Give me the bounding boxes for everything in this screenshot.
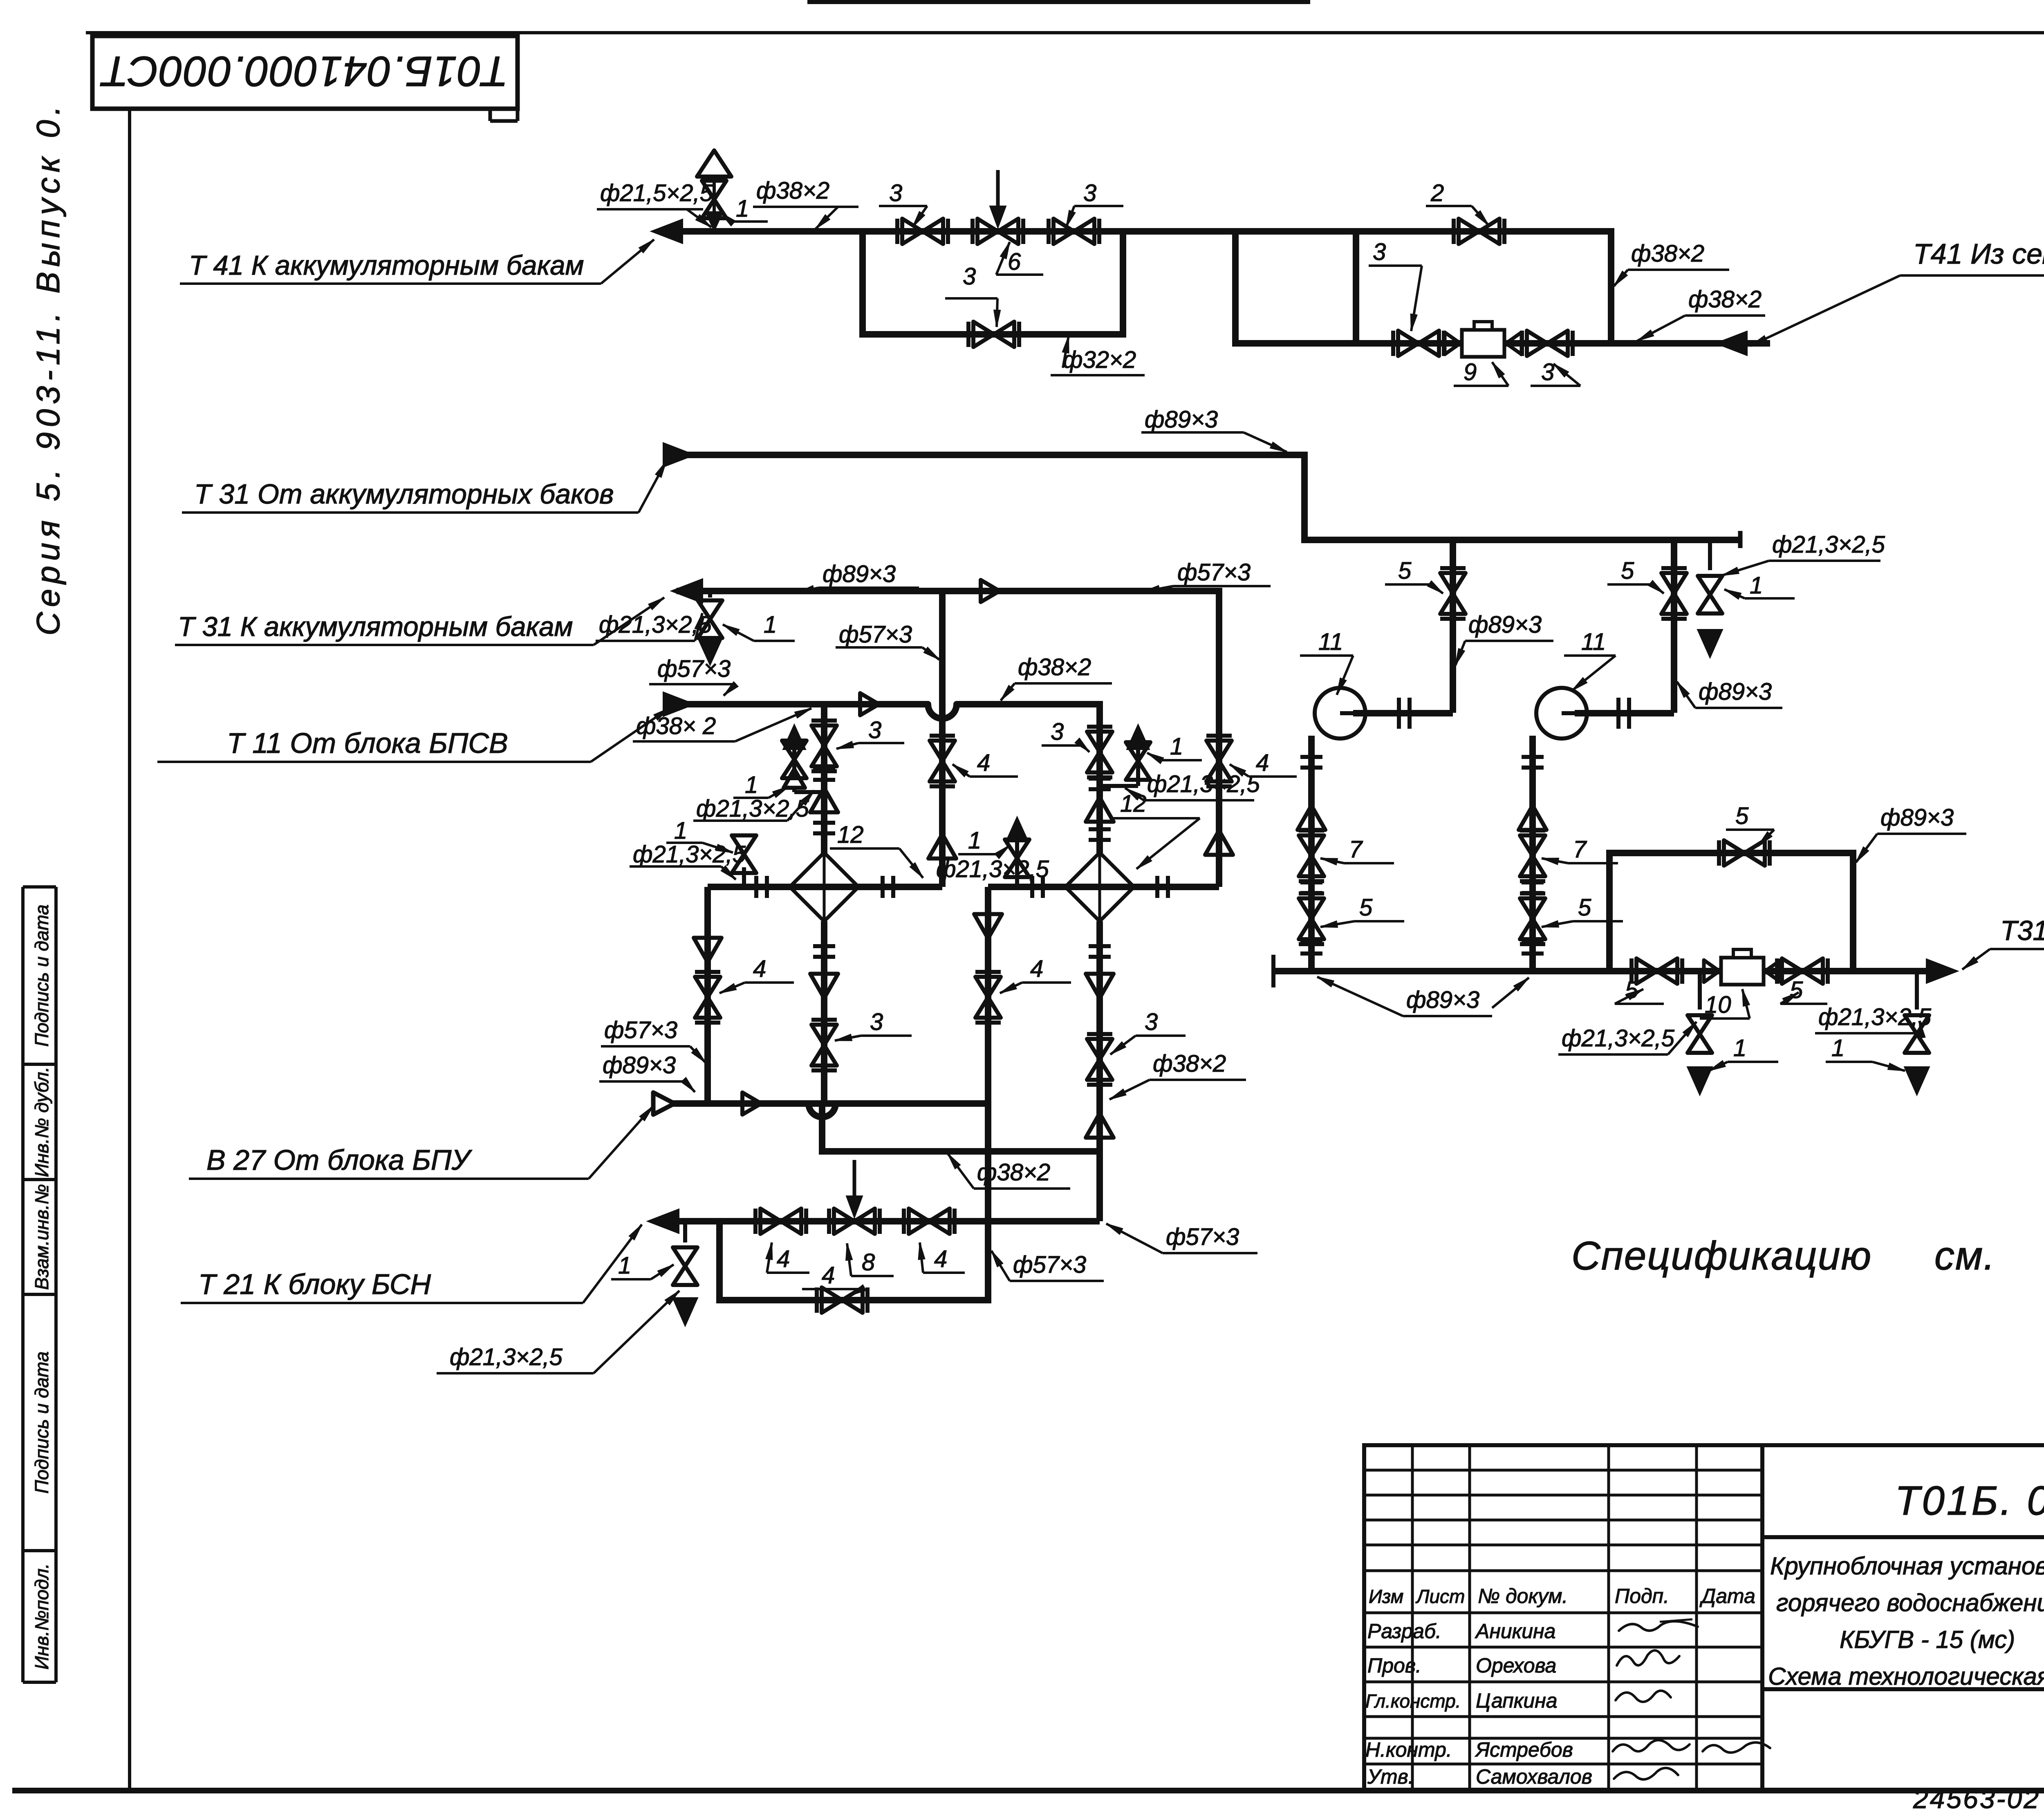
svg-text:Подпись и дата: Подпись и дата — [31, 1352, 52, 1494]
svg-text:ф21,3×2,5: ф21,3×2,5 — [1147, 771, 1260, 797]
label f38x2 incoming — [1637, 286, 1765, 341]
svg-text:Самохвалов: Самохвалов — [1476, 1765, 1592, 1788]
series label rotated — [30, 101, 66, 636]
label 5 header right — [1780, 977, 1827, 1004]
label 10 — [1700, 989, 1750, 1019]
svg-text:Т 21 К блоку БСН: Т 21 К блоку БСН — [198, 1268, 431, 1300]
wire HX-B inlet column — [1096, 719, 1103, 854]
wire riser A from T31K — [939, 591, 946, 887]
flange3 pump1 — [1300, 943, 1322, 954]
label 1 drain B — [958, 827, 1010, 859]
flange HX-B header R — [1157, 876, 1168, 898]
wire HX-A header — [708, 884, 942, 890]
check up HX-B bottom — [1086, 1113, 1114, 1138]
label 5 header left — [1615, 977, 1664, 1004]
check valve pump2 — [1519, 806, 1546, 830]
label 3 HX-B bottom — [1110, 1009, 1186, 1054]
label f38x2 riser — [1614, 240, 1729, 286]
scan edge artifact — [807, 0, 1310, 4]
svg-text:Изм: Изм — [1369, 1586, 1403, 1607]
svg-text:ф89×3: ф89×3 — [1880, 804, 1954, 831]
label 8 T21 — [846, 1243, 894, 1276]
label 3 HX-B inlet — [1042, 719, 1089, 752]
label 3 valve3L — [879, 180, 927, 227]
flow arrow T21 out — [647, 1209, 679, 1233]
label f89x3 B27 — [599, 1052, 695, 1092]
svg-text:ф57×3: ф57×3 — [657, 656, 731, 682]
wire pump2 discharge — [1575, 710, 1674, 716]
bottom annotations — [1913, 1784, 2044, 1811]
svg-text:ф21,3×2,5: ф21,3×2,5 — [1818, 1004, 1932, 1030]
label f89x3 discharge — [1317, 977, 1529, 1016]
label T21 — [181, 1224, 642, 1303]
valve 4 riser A — [930, 736, 955, 786]
svg-text:3: 3 — [868, 717, 881, 743]
svg-text:ф38×2: ф38×2 — [1018, 654, 1091, 681]
label f57x3 B27col — [601, 1017, 706, 1063]
label 3 valve3R — [1066, 180, 1123, 227]
svg-text:3: 3 — [1373, 239, 1386, 265]
label f57x3 riser A — [836, 621, 939, 660]
valve 7 pump1 — [1299, 831, 1324, 881]
label f89x3 recirc — [1856, 804, 1966, 862]
svg-text:горячего водоснабжения: горячего водоснабжения — [1776, 1589, 2044, 1616]
svg-text:ф89×3: ф89×3 — [823, 561, 896, 587]
label f21.3 drain B — [936, 856, 1049, 882]
valve 3 HX-A inlet — [811, 721, 837, 771]
valve 5 header left — [1632, 958, 1682, 984]
svg-text:Т 31 От аккумуляторных баков: Т 31 От аккумуляторных баков — [194, 479, 614, 510]
svg-text:ф57×3: ф57×3 — [1013, 1251, 1086, 1278]
label f38x2 T41 — [753, 177, 858, 229]
svg-text:ф89×3: ф89×3 — [603, 1052, 676, 1079]
label 1 header right drain — [1826, 1035, 1905, 1071]
heat exchanger 12 B — [1065, 853, 1134, 921]
check HX-A inlet — [810, 788, 838, 813]
svg-text:Серия 5. 903-11. Выпуск 0.: Серия 5. 903-11. Выпуск 0. — [30, 101, 66, 636]
wire T41 bypass — [859, 228, 1126, 334]
label f57x3 T21 header — [1106, 1224, 1257, 1253]
svg-text:11: 11 — [1581, 629, 1606, 655]
flange HX-A bottom — [813, 946, 835, 957]
label 3 HX-A inlet — [836, 717, 904, 749]
svg-text:3: 3 — [1541, 359, 1554, 385]
label T11 ot BPSV — [157, 708, 670, 762]
wire riser B from T31K corner — [1216, 588, 1222, 887]
valve 3 HX-B inlet — [1087, 727, 1112, 777]
label 4 T21 right — [918, 1242, 965, 1273]
flange HX-A header L — [756, 876, 767, 898]
doc stamp box rotated — [92, 36, 518, 121]
three-way valve 8 T21 — [829, 1160, 880, 1234]
svg-text:ф38×2: ф38×2 — [756, 177, 829, 204]
label T41 K akkum — [180, 240, 654, 284]
svg-text:3: 3 — [1145, 1009, 1158, 1035]
svg-text:ф38×2: ф38×2 — [977, 1159, 1050, 1186]
label 11 left — [1300, 629, 1353, 695]
label 12 A — [830, 822, 923, 878]
water meter 9 — [1445, 322, 1522, 357]
svg-text:5: 5 — [1621, 557, 1634, 584]
svg-text:1: 1 — [618, 1252, 631, 1279]
svg-text:Пров.: Пров. — [1367, 1654, 1421, 1677]
svg-text:10: 10 — [1705, 992, 1731, 1018]
valve 3 T41 right — [1049, 219, 1099, 244]
wire recirc loop — [1606, 850, 1856, 971]
flange2 pump2 — [1522, 882, 1544, 893]
svg-text:ф21,5×2,5: ф21,5×2,5 — [600, 180, 713, 206]
svg-text:3: 3 — [1083, 180, 1096, 206]
label 12 B — [1113, 790, 1200, 869]
valve 1 on HX-A header — [732, 835, 756, 887]
wire T31 from tanks — [677, 452, 1308, 543]
wire T11 line — [677, 704, 1103, 723]
label f38x2 jog — [948, 1153, 1070, 1189]
svg-text:4: 4 — [777, 1246, 790, 1272]
svg-text:ф21,3×2,5: ф21,3×2,5 — [633, 841, 746, 868]
label 1 T31K drain — [723, 611, 795, 641]
wire pump1 drop — [1450, 540, 1456, 713]
svg-text:1: 1 — [745, 772, 758, 798]
svg-text:Инв.№ дубл.: Инв.№ дубл. — [31, 1067, 52, 1177]
svg-text:4: 4 — [822, 1262, 835, 1289]
svg-text:1: 1 — [1170, 733, 1183, 760]
valve 2 T41 — [1454, 219, 1504, 244]
svg-text:9: 9 — [1464, 359, 1477, 385]
label 5 suction pump1 — [1320, 894, 1404, 927]
svg-text:Гл.констр.: Гл.констр. — [1365, 1690, 1461, 1712]
pump 11 left — [1315, 688, 1410, 739]
flange pump1 suction — [1300, 757, 1322, 768]
flow arrow open B27 mid — [742, 1092, 761, 1115]
crossing hop T11 under riser A — [928, 704, 957, 719]
wire T21 bypass — [716, 1221, 991, 1300]
svg-text:ф21,3×2,5: ф21,3×2,5 — [696, 795, 809, 822]
signatures — [1613, 1619, 1770, 1780]
svg-text:12: 12 — [1120, 790, 1147, 817]
label 3 bypass — [945, 263, 1000, 327]
label 2 — [1426, 180, 1489, 226]
three-way valve 6 T41 — [973, 170, 1023, 244]
valve 4 riser B low — [975, 972, 1001, 1023]
flange2 pump1 — [1300, 882, 1322, 893]
valve 5 recirc — [1719, 840, 1770, 866]
svg-text:Ястребов: Ястребов — [1475, 1738, 1573, 1761]
vent valve on HX-B header — [1005, 817, 1029, 887]
flange pump2 suction — [1522, 757, 1544, 768]
svg-text:ф57×3: ф57×3 — [604, 1017, 677, 1043]
label f21.3 T21 — [437, 1291, 679, 1373]
check valve riser A — [928, 834, 956, 859]
flow arrow open on T11 — [860, 693, 879, 715]
svg-text:1: 1 — [674, 817, 687, 844]
flange2 HX-B inlet — [1089, 829, 1111, 840]
svg-text:5: 5 — [1625, 977, 1638, 1003]
heat exchanger 12 A — [790, 853, 858, 921]
label f21.3 drain A — [630, 841, 746, 880]
flow arrow T31 to tanks — [671, 579, 703, 603]
svg-text:5: 5 — [1359, 894, 1373, 921]
label 4 col A left — [719, 956, 794, 993]
label 5 pump1 — [1385, 557, 1443, 593]
svg-text:Т 41 К аккумуляторным бакам: Т 41 К аккумуляторным бакам — [189, 250, 584, 281]
svg-text:5: 5 — [1398, 557, 1412, 584]
wire HX-A bottom column — [822, 921, 824, 1151]
svg-text:ф21,3×2,5: ф21,3×2,5 — [1562, 1025, 1675, 1052]
label 3 HX-A bottom — [835, 1009, 912, 1041]
wire HX-B header — [988, 884, 1219, 890]
svg-text:8: 8 — [862, 1249, 875, 1276]
svg-text:ф57×3: ф57×3 — [839, 621, 912, 648]
crossing hop B27 under HX-A column — [809, 1104, 836, 1117]
svg-text:ф38×2: ф38×2 — [1688, 286, 1762, 313]
wire T31 to tanks line — [677, 588, 1222, 594]
label 5 suction pump2 — [1542, 894, 1623, 927]
svg-text:4: 4 — [934, 1246, 947, 1272]
svg-text:ф21,3×2,5: ф21,3×2,5 — [450, 1344, 563, 1370]
label 1 vent A — [733, 772, 789, 798]
svg-text:Лист: Лист — [1415, 1586, 1465, 1607]
svg-text:11: 11 — [1318, 629, 1343, 655]
label f57x3 T21 bypass — [991, 1251, 1104, 1281]
svg-text:6: 6 — [1008, 248, 1021, 275]
safety valve 1 on T41 — [697, 150, 731, 231]
wire pump suction header — [1304, 531, 1740, 548]
label f89x3 pump1 — [1455, 611, 1553, 665]
svg-text:Т01Б.041000.000СТ: Т01Б.041000.000СТ — [100, 47, 508, 95]
svg-text:Подп.: Подп. — [1615, 1585, 1669, 1607]
svg-text:Т41 Из сети горячего водоснабж: Т41 Из сети горячего водоснабжения — [1913, 238, 2044, 270]
valve 3 meter row right — [1522, 331, 1573, 356]
svg-text:1: 1 — [968, 827, 981, 854]
svg-text:В 27 От блока БПУ: В 27 От блока БПУ — [206, 1144, 473, 1176]
flange HX-B bottom — [1089, 946, 1111, 957]
svg-text:5: 5 — [1578, 894, 1591, 921]
svg-text:№ докум.: № докум. — [1478, 1585, 1568, 1607]
svg-text:ф38×2: ф38×2 — [1153, 1050, 1226, 1077]
svg-text:Разраб.: Разраб. — [1367, 1620, 1441, 1643]
svg-text:ф38× 2: ф38× 2 — [636, 713, 716, 739]
vent stack B — [1100, 724, 1150, 786]
drain 1 header left — [1687, 971, 1712, 1095]
wire col A left down — [704, 887, 711, 1104]
valve 3 T41 bypass — [968, 322, 1019, 347]
svg-text:7: 7 — [1573, 836, 1587, 863]
drain on suction header — [1697, 540, 1723, 658]
svg-text:ф32×2: ф32×2 — [1063, 347, 1136, 373]
svg-text:5: 5 — [1790, 977, 1803, 1003]
label 7 pump2 — [1542, 836, 1618, 864]
check HX-A bottom — [810, 974, 838, 998]
label 6 — [996, 242, 1043, 275]
svg-text:ф21,3×2,5: ф21,3×2,5 — [599, 611, 712, 638]
label f38x2 T11 line — [1001, 654, 1112, 701]
check valve pump1 — [1298, 806, 1325, 830]
wire pump2 suction column — [1529, 736, 1536, 971]
svg-text:ф89×3: ф89×3 — [1406, 987, 1479, 1013]
wire HX-B bottom column — [1096, 921, 1103, 1221]
label 3 meter row — [1369, 239, 1422, 331]
wire T41 lower line — [1394, 340, 1770, 347]
svg-text:3: 3 — [1051, 719, 1064, 745]
flange HX-A header R — [883, 876, 893, 898]
label 4 riser A — [953, 750, 1018, 777]
svg-text:12: 12 — [837, 822, 864, 848]
valve 5 pump2 top — [1661, 568, 1687, 619]
wire T21 header — [677, 1218, 1100, 1224]
label f89x3 T31ot — [1141, 406, 1287, 452]
pump 11 right — [1536, 688, 1629, 739]
wire HX bottoms jog — [819, 1148, 1103, 1155]
label T31 v set — [1962, 915, 2044, 969]
water meter 10 — [1704, 949, 1781, 985]
wire B27 header — [670, 1100, 988, 1107]
check valve riser B — [1205, 831, 1233, 855]
flange2 HX-A inlet — [813, 823, 835, 833]
flow arrow T41 in — [1715, 331, 1747, 356]
flange HX-B inlet — [1089, 779, 1111, 789]
label f89x3 pump2 — [1677, 678, 1782, 708]
svg-text:3: 3 — [870, 1009, 883, 1035]
svg-text:4: 4 — [753, 956, 766, 982]
label 4 T21 left — [766, 1242, 809, 1273]
label f21.3 vent B — [1125, 771, 1260, 800]
label f57x3 T31K right — [1143, 559, 1271, 592]
flange HX-B header L — [1032, 876, 1043, 898]
svg-text:ф21,3×2,5: ф21,3×2,5 — [1772, 531, 1885, 558]
valve 3 T41 left — [897, 219, 948, 244]
svg-text:ф89×3: ф89×3 — [1699, 678, 1772, 705]
svg-text:1: 1 — [1733, 1035, 1746, 1061]
svg-text:1: 1 — [764, 611, 777, 638]
label 1 T21 drain — [611, 1252, 674, 1279]
wire pump2 drop — [1671, 540, 1677, 713]
wire pump1 suction column — [1308, 736, 1315, 971]
label 3 meter row right — [1531, 359, 1580, 386]
svg-text:Т 31 К аккумуляторным бакам: Т 31 К аккумуляторным бакам — [178, 611, 573, 642]
svg-text:3: 3 — [889, 180, 902, 206]
valve 3 meter row left — [1393, 331, 1444, 356]
flow arrow open on T31K — [981, 580, 1000, 602]
svg-text:4: 4 — [977, 750, 990, 776]
svg-text:КБУГВ - 15 (мс): КБУГВ - 15 (мс) — [1840, 1626, 2015, 1653]
label f21.3 header right — [1815, 1004, 1932, 1038]
drain on T21 — [672, 1221, 698, 1326]
svg-text:Т01Б. 041 000. 000 СТ: Т01Б. 041 000. 000 СТ — [1895, 1478, 2044, 1524]
drain on T31K — [698, 591, 722, 665]
valve 5 suction pump1 — [1299, 893, 1324, 944]
check down riser B — [974, 914, 1002, 939]
title block left texts — [1365, 1585, 1755, 1788]
svg-text:Утв.: Утв. — [1367, 1765, 1414, 1788]
label 1 drain A — [666, 817, 733, 853]
svg-text:см.: см. — [1934, 1233, 1995, 1278]
valve 5 pump1 top — [1440, 568, 1466, 619]
label f38x2 HX-B bottom — [1109, 1050, 1246, 1099]
label B27 — [189, 1106, 653, 1179]
svg-text:Аникина: Аникина — [1475, 1620, 1555, 1643]
label 11 right — [1564, 629, 1616, 691]
valve 5 suction pump2 — [1520, 893, 1545, 944]
svg-text:Схема технологическая: Схема технологическая — [1768, 1663, 2044, 1690]
svg-text:4: 4 — [1030, 956, 1043, 982]
wire T41 main line — [670, 228, 1611, 235]
wire T41 right riser — [1608, 228, 1614, 347]
label 7 pump1 — [1320, 836, 1394, 865]
wire T41 connection box — [1232, 228, 1394, 343]
check down col A left — [694, 938, 722, 963]
svg-text:ф89×3: ф89×3 — [1468, 611, 1542, 638]
valve 4 col A left — [695, 972, 720, 1023]
label f21.3 header left — [1558, 1022, 1697, 1054]
svg-text:7: 7 — [1349, 836, 1363, 863]
label T31 ot akkum — [182, 461, 666, 513]
svg-text:ф57×3: ф57×3 — [1166, 1224, 1239, 1250]
svg-text:ф57×3: ф57×3 — [1177, 559, 1251, 586]
label 5 pump2 — [1607, 557, 1664, 593]
label 1 header left drain — [1709, 1035, 1778, 1071]
wire HX-A inlet column — [821, 704, 827, 854]
label f38x2 T11 — [633, 708, 811, 741]
wire riser HX-B to T21 — [985, 887, 991, 1221]
label 5 recirc — [1726, 803, 1774, 846]
label T31 k akkum — [175, 598, 664, 645]
label f32x2 — [1051, 336, 1145, 375]
svg-text:Дата: Дата — [1699, 1585, 1755, 1607]
valve 3 HX-A bottom — [811, 1020, 837, 1070]
label 9 — [1454, 359, 1508, 386]
svg-text:ф38×2: ф38×2 — [1631, 240, 1704, 267]
svg-text:Крупноблочная установка: Крупноблочная установка — [1770, 1552, 2044, 1580]
svg-text:Т 11 От блока БПСВ: Т 11 От блока БПСВ — [227, 727, 508, 759]
svg-text:5: 5 — [1735, 803, 1749, 829]
svg-text:24563-02: 24563-02 — [1913, 1784, 2040, 1811]
check HX-B bottom — [1086, 974, 1114, 998]
svg-text:ф89×3: ф89×3 — [1145, 406, 1218, 433]
label 1 suction drain — [1724, 572, 1795, 599]
label f21.5x2.5 — [597, 180, 713, 227]
note specification — [1571, 1233, 2044, 1278]
label f21.3 vent A — [693, 790, 814, 822]
svg-text:1: 1 — [1831, 1035, 1845, 1061]
flange3 pump2 — [1522, 943, 1544, 954]
label 4 T21 bypass — [802, 1262, 866, 1296]
svg-text:Орехова: Орехова — [1476, 1654, 1556, 1677]
svg-text:Цапкина: Цапкина — [1476, 1689, 1558, 1712]
label 1 top T41 — [720, 195, 768, 226]
check HX-B inlet — [1086, 797, 1114, 822]
flow arrow T31 out to net — [1926, 959, 1958, 983]
svg-text:Взам.инв.№: Взам.инв.№ — [31, 1184, 52, 1290]
vent stack A — [782, 724, 824, 792]
label f57x3 T11 — [649, 656, 738, 696]
svg-text:2: 2 — [1430, 180, 1444, 206]
label f21.3 suction — [1722, 531, 1885, 575]
flow arrow B27 open — [653, 1092, 675, 1115]
flow arrow T31 in — [663, 443, 695, 467]
label 4 riser B low — [1000, 956, 1071, 993]
label T41 iz seti — [1750, 238, 2044, 346]
svg-text:Н.контр.: Н.контр. — [1365, 1738, 1452, 1761]
label f21.3 T31K drain — [596, 611, 712, 641]
label f89x3 T31K — [797, 561, 919, 593]
drain 1 header right — [1904, 971, 1930, 1095]
svg-text:Инв.№подл.: Инв.№подл. — [31, 1563, 52, 1670]
wire discharge header — [1273, 955, 1934, 987]
valve 7 pump2 — [1520, 831, 1545, 881]
svg-text:Спецификацию: Спецификацию — [1571, 1233, 1872, 1278]
svg-text:Т31 в сеть горячего водоснабже: Т31 в сеть горячего водоснабжения — [2000, 915, 2044, 946]
